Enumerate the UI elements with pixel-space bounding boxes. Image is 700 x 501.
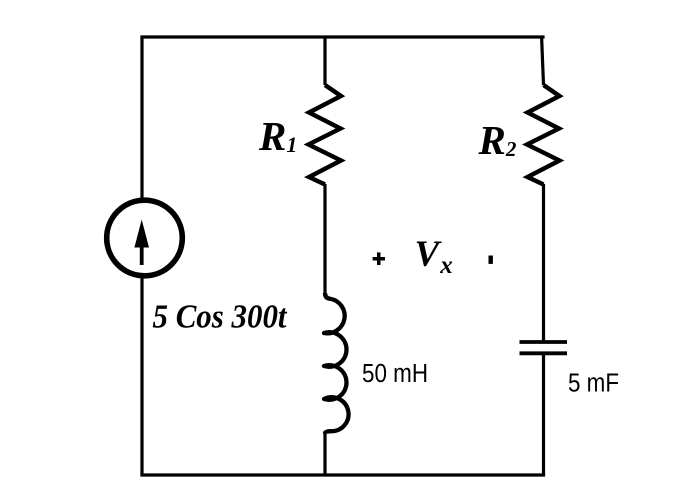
resistor R1: [309, 85, 342, 185]
wire right lower (capacitor to bottom rail): [542, 355, 545, 475]
resistor R2: [527, 85, 560, 185]
wire middle upper (top rail to R1): [323, 37, 326, 85]
wire right between R2 and capacitor: [542, 184, 545, 341]
svg-text:50 mH: 50 mH: [362, 360, 428, 388]
plus sign of Vx: [373, 252, 385, 265]
wire left lower (source bottom to bottom rail): [140, 276, 143, 475]
wire left upper (source top to top rail): [140, 37, 143, 200]
inductor L1 50 mH: [324, 293, 349, 434]
wire right upper (top rail to R2): [542, 37, 544, 85]
minus mark of Vx: [489, 256, 493, 264]
current source arrow: [134, 220, 149, 266]
capacitor C1 plate bottom: [520, 351, 568, 355]
wire bottom (common node): [140, 473, 545, 476]
wire top (node from source to R1 to R2): [140, 35, 544, 38]
capacitor C1 plate top: [520, 340, 568, 344]
svg-text:5 mF: 5 mF: [568, 370, 619, 398]
wire middle lower (inductor to bottom rail): [323, 432, 326, 475]
current source I1 circle: [107, 200, 183, 276]
svg-text:5 Cos 300t: 5 Cos 300t: [153, 299, 288, 336]
wire middle between R1 and inductor: [323, 184, 326, 294]
